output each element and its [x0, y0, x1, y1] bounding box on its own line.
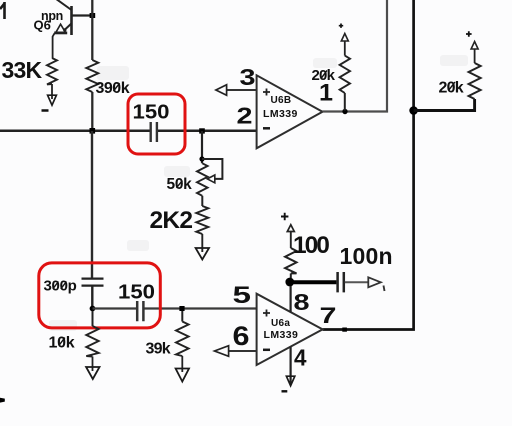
svg-text:3: 3 [240, 64, 256, 90]
ground arrow 33K [48, 95, 57, 105]
node bus-50k junction [199, 128, 205, 133]
wire 390k to bus [91, 92, 93, 131]
svg-text:8: 8 [294, 289, 310, 315]
wiper arrow 50k [207, 175, 215, 183]
wire bus junction down to pot [201, 131, 203, 163]
svg-text:39k: 39k [146, 341, 171, 358]
resistor 390k [86, 60, 98, 92]
wire bottom bus right segment to pin5 [145, 307, 257, 309]
wire vertical left net to 300p [91, 131, 93, 278]
wire 39k to ground [181, 356, 183, 372]
svg-text:U6B: U6B [271, 95, 292, 106]
slashed zeros small labels [53, 70, 455, 345]
svg-text:300p: 300p [44, 278, 77, 295]
wire bus right segment to pin2 [158, 130, 257, 133]
svg-text:33K: 33K [2, 57, 43, 83]
op-amp U6B [257, 75, 323, 148]
svg-text:150: 150 [133, 101, 170, 124]
wire vertical base net top [91, 0, 93, 60]
red annotation box top [128, 94, 185, 154]
pin 3 wire [227, 89, 257, 91]
U6B minus [263, 127, 270, 130]
node bus-390k junction [90, 128, 96, 134]
wire 300p to bottom node [91, 286, 93, 309]
node central-output junction [409, 106, 418, 115]
node bottom-39k junction [179, 306, 184, 311]
capacitor 100n plates [338, 272, 344, 292]
rail arrow 20k left [341, 34, 348, 42]
capacitor 300p plates [82, 279, 104, 286]
ground arrow 39k [176, 369, 189, 382]
resistor 33K [47, 58, 57, 84]
rail plus 100 [281, 213, 288, 220]
mark bottom-left edge [0, 398, 5, 403]
wiper loop 50k [202, 159, 222, 179]
wire 20k to output [344, 93, 346, 111]
corner mark top-left [0, 2, 5, 19]
pin 4 wire [290, 347, 292, 384]
potentiometer 50k [197, 163, 208, 196]
wire base of Q6 to node [72, 14, 93, 16]
svg-text:100n: 100n [340, 243, 393, 269]
ground arrow 10k [86, 367, 99, 379]
node pin8 junction [285, 278, 294, 287]
wire bottom bus left segment [93, 307, 137, 309]
ground arrow 2K2 [196, 248, 209, 260]
capacitor 150 bottom plates [137, 301, 143, 321]
pin 6 arrow [215, 346, 229, 357]
svg-text:6: 6 [233, 321, 250, 351]
svg-text:100: 100 [293, 232, 329, 259]
wire central net [323, 0, 414, 330]
resistor 39k [181, 311, 183, 322]
node pot top [199, 156, 204, 161]
resistor 20k right [469, 63, 481, 99]
svg-text:Q6: Q6 [34, 18, 51, 33]
scan artifact patches [49, 55, 468, 331]
red annotation box bottom [39, 263, 161, 328]
pin 8 wire [290, 286, 292, 312]
pin 6 wire [229, 350, 257, 352]
transistor Q6 [53, 0, 72, 58]
U6a minus [263, 349, 270, 352]
wire 10k to ground [92, 357, 94, 372]
node bottom-left junction [90, 306, 96, 312]
resistor 10k [92, 311, 94, 326]
resistor 100 [285, 248, 296, 273]
svg-text:4: 4 [294, 345, 307, 371]
wire output pin1 [323, 0, 388, 112]
U6a plus [263, 310, 270, 317]
rail arrow 20k right [471, 42, 478, 50]
node pin7 output junction [342, 328, 347, 332]
svg-text:390k: 390k [96, 80, 130, 97]
svg-text:2K2: 2K2 [150, 207, 193, 234]
resistor 20k left [340, 56, 350, 93]
pin 3 arrow [216, 85, 227, 96]
U6B plus [263, 89, 270, 96]
node pin1-20k junction [342, 109, 347, 114]
svg-text:2: 2 [237, 103, 253, 129]
wire bus left segment [0, 130, 150, 133]
rail plus 20k right [466, 31, 472, 37]
rail plus 20k left [339, 24, 343, 28]
svg-text:LM339: LM339 [264, 329, 299, 341]
wire pot to 2K2 [201, 196, 203, 206]
wire 100n to arrow [345, 281, 368, 283]
svg-text:U6a: U6a [271, 318, 290, 329]
ground arrow pin 4 [286, 376, 294, 386]
wire 2K2 to ground [201, 234, 203, 252]
minus mark under 33K ground [42, 109, 49, 112]
minus mark pin 4 [282, 390, 288, 392]
svg-text:LM339: LM339 [263, 108, 298, 120]
node base junction [90, 13, 96, 18]
wire thick to 100n [292, 280, 336, 284]
wire 100 to node [290, 273, 292, 278]
wire jog to 20k right [414, 99, 475, 111]
resistor 2K2 [196, 206, 208, 234]
svg-text:150: 150 [118, 281, 155, 303]
arrow right 100n [368, 277, 381, 287]
op-amp U6a [257, 294, 323, 365]
svg-text:5: 5 [233, 282, 252, 309]
rail arrow 100 [287, 225, 294, 232]
wire 33K to ground [51, 84, 53, 99]
tick after arrow [384, 286, 385, 292]
svg-text:7: 7 [320, 303, 337, 328]
capacitor 150 top plates [151, 122, 157, 142]
